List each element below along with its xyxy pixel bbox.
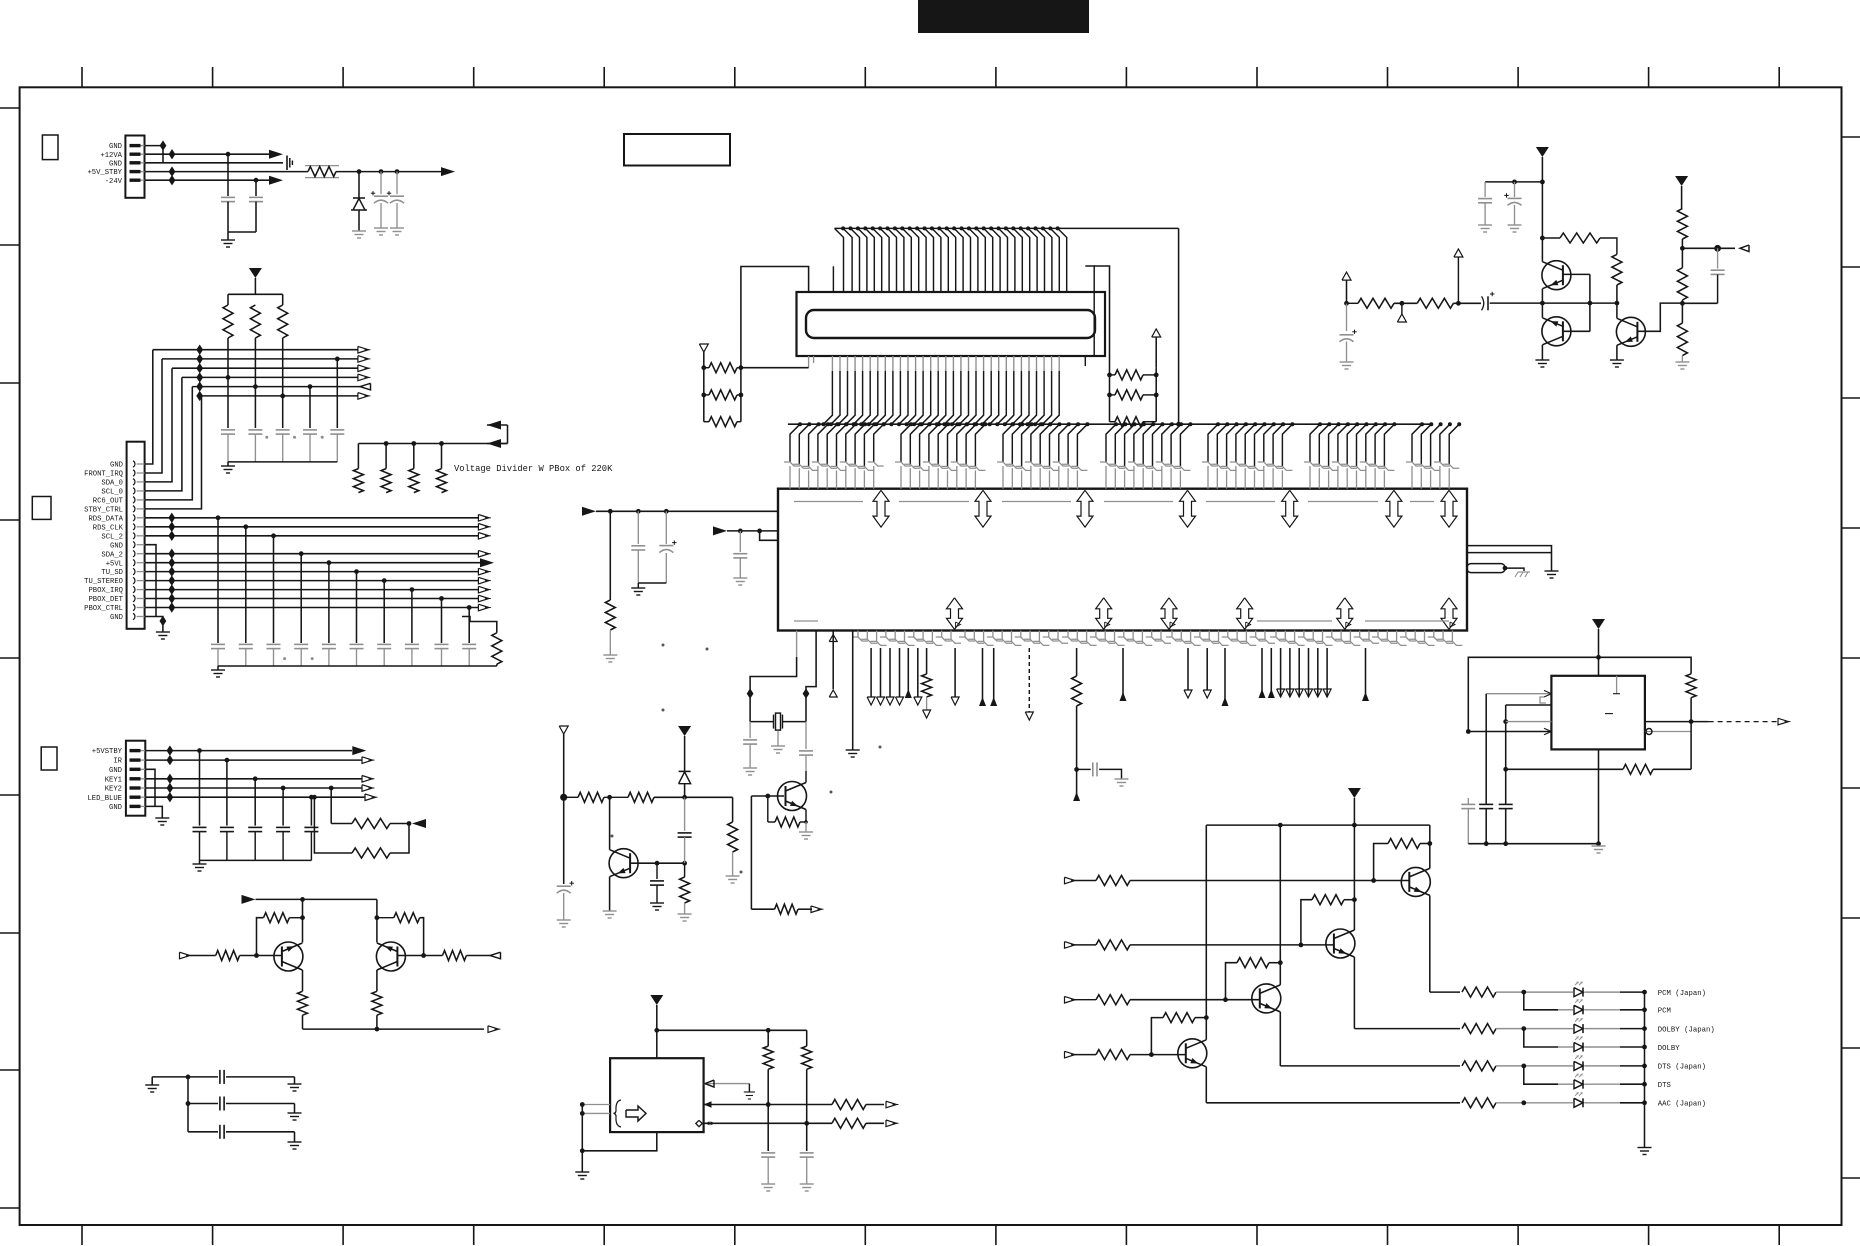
capacitor Cin electrolytic	[1346, 303, 1348, 331]
resistor RR3	[1115, 417, 1143, 427]
svg-text:DTS: DTS	[1658, 1082, 1672, 1090]
ground D	[846, 749, 860, 751]
ground C3	[374, 227, 388, 229]
wire filter column 2	[245, 527, 247, 643]
LED DTS	[1582, 1080, 1584, 1089]
transistor Q3 (PNP)	[1616, 317, 1645, 346]
wire pin	[889, 648, 891, 697]
ground CI1	[557, 919, 571, 921]
ground CD1	[1478, 224, 1492, 226]
net port down	[896, 697, 904, 705]
wire pin	[880, 648, 882, 697]
wire decoupling rail	[1485, 181, 1542, 183]
wire row GND	[153, 349, 358, 351]
wire pin N	[1365, 648, 1367, 701]
capacitor CB8	[405, 643, 419, 645]
wire STBY_CTRL to row	[145, 396, 202, 509]
power symbol F2	[1675, 176, 1688, 186]
capacitor CB2	[239, 643, 253, 645]
net port down	[867, 697, 875, 705]
wire output row AAC	[1206, 1102, 1460, 1104]
svg-text:SDA_0: SDA_0	[101, 480, 123, 488]
arrow out I	[811, 906, 822, 913]
ground CL1	[288, 1083, 302, 1085]
arrow RDS_DATA out	[478, 515, 489, 522]
resistor RM4	[832, 1118, 866, 1128]
svg-text:RDS_CLK: RDS_CLK	[93, 524, 124, 532]
artifact dots center	[662, 644, 665, 647]
wire GND to row	[145, 350, 153, 464]
capacitor CD2 electrolytic	[1514, 182, 1516, 197]
resistor R STBY series	[305, 165, 339, 167]
net port mid	[1397, 314, 1406, 322]
wire pin	[1317, 648, 1319, 697]
IC internal bus arrow	[975, 490, 991, 527]
capacitor CL3	[188, 1131, 218, 1133]
wire IC bottom to crystal B	[806, 631, 816, 689]
wire pin	[1261, 648, 1263, 697]
capacitor CL2	[188, 1103, 218, 1105]
svg-text:PCM (Japan): PCM (Japan)	[1658, 990, 1706, 998]
VFD display outline	[797, 292, 1106, 356]
IC right tab pin	[1467, 564, 1505, 573]
resistor LED row	[1462, 1098, 1496, 1108]
U3 left pins	[582, 1104, 610, 1106]
power symbol I	[678, 726, 691, 736]
IC right pins	[1467, 546, 1552, 571]
IC bottom pin taps	[857, 631, 859, 638]
capacitor J3	[248, 826, 262, 828]
wire filter column 4	[300, 554, 302, 643]
arrow PBOX_CTRL out	[478, 604, 489, 611]
IC internal bus arrow	[1237, 598, 1253, 630]
capacitor J3	[220, 826, 234, 828]
wire caps join ground	[638, 582, 666, 584]
LED DTS (Japan)	[1582, 1061, 1584, 1070]
wire rail down to Q1 collector	[1541, 182, 1543, 262]
wire cap to row	[1682, 302, 1717, 304]
U3 brace symbol	[614, 1100, 622, 1127]
resistor RF3	[1677, 209, 1687, 239]
svg-text:DOLBY (Japan): DOLBY (Japan)	[1658, 1026, 1715, 1034]
capacitor CI2	[684, 797, 686, 831]
svg-text:KEY2: KEY2	[105, 786, 122, 794]
ground CM1	[761, 1183, 775, 1185]
arrow TU_STEREO out	[478, 577, 489, 584]
transistor QK2	[376, 942, 405, 971]
resistor RP2	[250, 305, 260, 338]
anode bus above display	[835, 227, 1179, 229]
wire pin L3	[1224, 648, 1226, 706]
wire pin	[899, 648, 901, 697]
svg-text:FRONT_IRQ: FRONT_IRQ	[84, 471, 123, 479]
wire filter column 5	[328, 563, 330, 643]
wire QK2 emitter	[376, 970, 378, 991]
arrow supply K	[242, 895, 256, 904]
arrow net in A	[487, 421, 501, 430]
wire pin L2	[1206, 648, 1208, 690]
wire CL3 right	[226, 1131, 295, 1133]
resistor RD1	[353, 469, 363, 493]
arrow up H2	[990, 697, 997, 706]
wire U2 pin2 left	[1506, 704, 1552, 706]
ground Q osc emitter	[805, 822, 807, 832]
net port down M	[1305, 689, 1313, 697]
wire cap column 3	[380, 172, 382, 194]
node diamond +5VL	[168, 558, 175, 568]
wire fan display bottom	[831, 356, 833, 371]
resistor LED row	[1462, 1024, 1496, 1034]
svg-text:Voltage Divider W PBox of 220K: Voltage Divider W PBox of 220K	[454, 464, 613, 474]
connector J3 (keys)	[126, 741, 145, 816]
capacitor CM1	[761, 1152, 775, 1154]
wire Q1 emitter down	[1541, 289, 1543, 303]
wire filter column 3	[273, 536, 275, 643]
wire QK2 base right	[397, 955, 442, 957]
wire pin	[870, 648, 872, 697]
resistor RG2 bottom	[1623, 764, 1653, 774]
arrow up M	[1259, 689, 1266, 698]
wire resistor to LED	[1496, 1065, 1573, 1067]
wire pin	[1280, 648, 1282, 697]
wire U2 pin1 left	[1486, 693, 1551, 695]
connector J1 (power input)	[125, 136, 144, 198]
wire row FRONT_IRQ	[162, 358, 358, 360]
wire LED_BLUE row	[145, 796, 365, 798]
resistor RM1	[763, 1046, 773, 1069]
resistor RI4	[728, 822, 738, 852]
capacitor CB3	[267, 643, 281, 645]
resistor RK4	[443, 951, 467, 961]
title block (black)	[918, 0, 1089, 33]
wire +12VA	[145, 153, 270, 155]
ground power entry	[221, 239, 235, 241]
node diamond RDS_CLK	[168, 522, 175, 532]
wire base column down	[750, 796, 752, 909]
wire GND pin3 to chassis	[145, 162, 284, 164]
IC internal bus arrow	[1282, 490, 1298, 527]
resistor RJ	[1072, 676, 1082, 706]
ground IC right	[1545, 570, 1559, 572]
ground RI4	[726, 875, 740, 877]
wire +5V_STBY after resistor	[336, 171, 441, 173]
ground out pin	[744, 1091, 755, 1093]
wire H rail3 (Q2 collector)	[1353, 825, 1355, 930]
capacitor CF4	[303, 429, 317, 431]
left sub circuit: net port	[559, 726, 568, 734]
ground U3	[575, 1171, 589, 1173]
ground J3 caps	[199, 860, 201, 864]
feedback resistor QK1	[264, 913, 290, 923]
resistor RP3	[278, 305, 288, 338]
svg-text:PBOX_IRQ: PBOX_IRQ	[88, 587, 123, 595]
wire Q4 emitter down	[1429, 895, 1431, 992]
arrow SDA_0 out	[358, 365, 369, 372]
wire U3 left column	[581, 1105, 583, 1151]
arrow K out	[488, 1026, 499, 1033]
node +5V_STBY diamond	[169, 166, 176, 176]
svg-text:+5VSTBY: +5VSTBY	[92, 748, 123, 756]
arrow -24V out	[269, 176, 283, 185]
wire fans bus to IC top pins	[798, 422, 802, 426]
svg-text:GND: GND	[110, 614, 123, 622]
arrow PBOX_IRQ out	[478, 586, 489, 593]
capacitor CI1 electrolytic	[557, 885, 571, 887]
IC internal bus arrow	[1180, 490, 1196, 527]
power symbol G	[1592, 619, 1605, 629]
node diamond RC6_OUT	[196, 381, 203, 391]
net port down G	[951, 697, 959, 705]
LED PCM	[1582, 1005, 1584, 1014]
arrow GND out	[358, 346, 369, 353]
arrow RC6_OUT out	[360, 383, 371, 390]
wire pin	[1270, 648, 1272, 697]
svg-text:TU_STEREO: TU_STEREO	[84, 578, 123, 586]
resistor base H	[1096, 995, 1130, 1005]
wire left net rail	[737, 367, 741, 369]
wire GND pin18	[145, 617, 163, 622]
resistor RL3	[709, 417, 737, 427]
wire Q3 base right-up	[1637, 303, 1682, 331]
feedback resistor QK2	[394, 913, 420, 923]
node diamond FRONT_IRQ	[196, 354, 203, 364]
wire display top-left pin loop	[832, 266, 834, 292]
wire row PBOX_CTRL	[145, 607, 479, 609]
resistor base H	[1096, 876, 1130, 886]
capacitor C2	[249, 196, 263, 198]
arrow up	[905, 689, 912, 698]
wire output row DTS Japan	[1280, 1065, 1460, 1067]
resistor RL2	[709, 390, 737, 400]
svg-text:DTS (Japan): DTS (Japan)	[1658, 1064, 1706, 1072]
power symbol M	[650, 995, 663, 1005]
transistor QI1	[609, 849, 638, 878]
net port down M	[1286, 689, 1294, 697]
node I2	[607, 795, 612, 800]
VFD display inner window	[806, 310, 1095, 338]
wire row PBOX_DET	[145, 598, 479, 600]
wire filter column 7	[383, 581, 385, 643]
wire Q osc collector	[805, 782, 807, 784]
wire Q7 emitter down	[1205, 1067, 1207, 1103]
left border tick marks	[0, 107, 20, 109]
capacitor C coupling	[1482, 296, 1484, 310]
capacitor CJ	[1092, 762, 1094, 776]
IC internal gray segments top	[794, 501, 863, 503]
ground RI3	[678, 913, 692, 915]
feedback resistor Q7	[1163, 1013, 1195, 1023]
capacitor CB10	[462, 643, 476, 645]
wire filter column J3	[282, 788, 284, 826]
pin1 arrowhead	[1544, 690, 1551, 693]
wire row +5VL	[145, 562, 480, 564]
svg-text:PBOX_DET: PBOX_DET	[88, 596, 123, 604]
resistor R cap rail	[492, 633, 502, 664]
wire U2 out right	[1645, 721, 1691, 723]
wire pullups join	[390, 823, 409, 825]
transistor Q2 (PNP)	[1542, 317, 1571, 346]
wire pin	[1326, 648, 1328, 697]
LED AAC (Japan)	[1582, 1098, 1584, 1107]
net port down M	[1295, 689, 1303, 697]
net port down	[877, 697, 885, 705]
arrow input H	[1065, 877, 1076, 884]
wire J3 cap rail	[200, 859, 312, 861]
svg-text:-24V: -24V	[105, 178, 123, 186]
node I3	[682, 795, 687, 800]
arrow M out2	[886, 1120, 897, 1127]
arrow +5VL out (filled)	[480, 558, 494, 567]
wire row RDS_DATA	[145, 517, 479, 519]
wire pin H2	[993, 648, 995, 706]
wire Q2 collector to ground	[1541, 345, 1543, 360]
wire GND pin10 to pin18	[145, 545, 156, 617]
wire row TU_SD	[145, 571, 479, 573]
chassis ground GND net	[286, 156, 288, 171]
IC internal bus arrow	[1441, 490, 1457, 527]
resistor RP1	[223, 305, 233, 338]
diode DI1	[679, 770, 691, 772]
node diamond SDA_2	[168, 549, 175, 559]
resistor RK6	[372, 991, 382, 1015]
capacitor CB5	[322, 643, 336, 645]
wire G outer loop	[1468, 657, 1691, 731]
power symbol pull-up rail	[249, 268, 262, 278]
svg-text:+5V_STBY: +5V_STBY	[87, 169, 122, 177]
wire pin	[1308, 648, 1310, 697]
wire LED cathode	[1585, 1028, 1621, 1030]
wire filter column 1	[217, 518, 219, 643]
resistor RK3	[216, 951, 240, 961]
wire base row1	[1130, 880, 1409, 882]
net port down L2	[1203, 690, 1211, 698]
capacitor XC2	[805, 722, 807, 749]
arrow up M	[1268, 689, 1275, 698]
wire pin L1	[1187, 648, 1189, 690]
capacitor CB9	[435, 643, 449, 645]
transistor Q7	[1178, 1039, 1207, 1068]
transistor Q5	[1326, 929, 1355, 958]
node diamond STBY_CTRL	[196, 391, 203, 401]
ground CL3	[288, 1141, 302, 1143]
ground cap rail	[227, 462, 229, 466]
arrow STBY_CTRL out	[358, 393, 369, 400]
resistor LED row	[1462, 987, 1496, 997]
wire H top rail	[1206, 824, 1430, 826]
resistor RF1 collector-feedback	[1560, 233, 1600, 243]
arrow RDS_CLK out	[478, 524, 489, 531]
node diamond RDS_DATA	[168, 513, 175, 523]
svg-text:RC6_OUT: RC6_OUT	[93, 498, 124, 506]
resistor RF4	[1677, 268, 1687, 300]
wire row PBOX_IRQ	[145, 589, 479, 591]
wire base row2	[1130, 944, 1334, 946]
arrow up H1	[979, 697, 986, 706]
wire cap column 4 up	[309, 387, 311, 428]
ground QI1 emitter	[603, 910, 617, 912]
wire pin J with resistor	[1076, 648, 1078, 676]
svg-text:GND: GND	[109, 767, 122, 775]
node junctions on +5V_STBY	[357, 169, 362, 174]
wire QK1 emitter	[302, 970, 304, 991]
wire pin step	[760, 531, 778, 540]
wire U2 outb right (gray)	[1645, 731, 1691, 733]
arrow out F	[1740, 245, 1749, 252]
wire GND row to cap-rail resistor	[468, 616, 470, 618]
artifact dots	[265, 436, 268, 439]
resistor base H	[1096, 940, 1130, 950]
wire below C1	[227, 202, 229, 232]
resistor RF6	[1358, 298, 1394, 308]
resistor RR2	[1115, 390, 1143, 400]
wire cap bus bottom	[218, 665, 497, 667]
svg-text:SCL_2: SCL_2	[101, 533, 123, 541]
resistor base H	[1096, 1050, 1130, 1060]
arrow pullup supply	[412, 819, 426, 828]
wire SCL_0 to row	[145, 377, 182, 491]
wire Q5 emitter down	[1353, 957, 1355, 1029]
capacitor left C	[739, 531, 741, 552]
net port down	[886, 697, 894, 705]
node +12VA diamond	[169, 149, 176, 159]
node GND diamond	[160, 616, 167, 626]
arrow +5V_STBY out	[441, 167, 455, 176]
power symbol F1	[1536, 147, 1549, 157]
wire right side drop	[1178, 228, 1180, 424]
wire KEY1 row	[145, 778, 362, 780]
wire filter column J3	[310, 797, 312, 825]
arrow up K	[1120, 692, 1127, 701]
wire filter column 8	[411, 590, 413, 643]
sheet reference box A	[42, 135, 58, 160]
resistor RR1	[1115, 370, 1143, 380]
transistor Q6	[1252, 984, 1281, 1013]
ground caps	[631, 587, 645, 589]
IC U2 internal marks	[1616, 676, 1618, 694]
antenna port right	[1152, 329, 1161, 337]
node diamond SDA_0	[196, 363, 203, 373]
arrow PBOX_DET out	[478, 595, 489, 602]
node big	[1714, 245, 1721, 252]
IC internal bus arrow	[1161, 598, 1177, 630]
resistor RF7	[1417, 298, 1453, 308]
wire +5V_STBY to resistor	[145, 171, 309, 173]
wire pin	[1298, 648, 1300, 697]
wire row TU_STEREO	[145, 580, 479, 582]
wire filter column 10	[468, 608, 470, 644]
ground LED rail	[1638, 1147, 1652, 1149]
resistor RF bottom	[922, 674, 932, 697]
svg-text:PCM: PCM	[1658, 1008, 1671, 1016]
capacitor CF5	[330, 429, 344, 431]
wire out node	[1682, 247, 1735, 249]
IC internal bus arrow	[1337, 598, 1353, 630]
IC internal bus arrow	[947, 598, 963, 630]
wire QI1 collector up	[609, 797, 611, 849]
wire pin I dashed	[1028, 648, 1030, 712]
svg-text:GND: GND	[109, 160, 122, 168]
capacitor J3	[276, 826, 290, 828]
arrow SDA_2 out	[478, 550, 489, 557]
wire resistor to LED	[1496, 1028, 1573, 1030]
net port up C	[829, 690, 837, 697]
capacitor CG1	[1461, 803, 1475, 805]
wire row SDA_0	[172, 367, 358, 369]
wire signal row	[1490, 302, 1617, 304]
wire GND pin1	[145, 145, 164, 147]
wire SDA_0 to row	[145, 368, 172, 482]
ground connector GND	[156, 631, 170, 633]
